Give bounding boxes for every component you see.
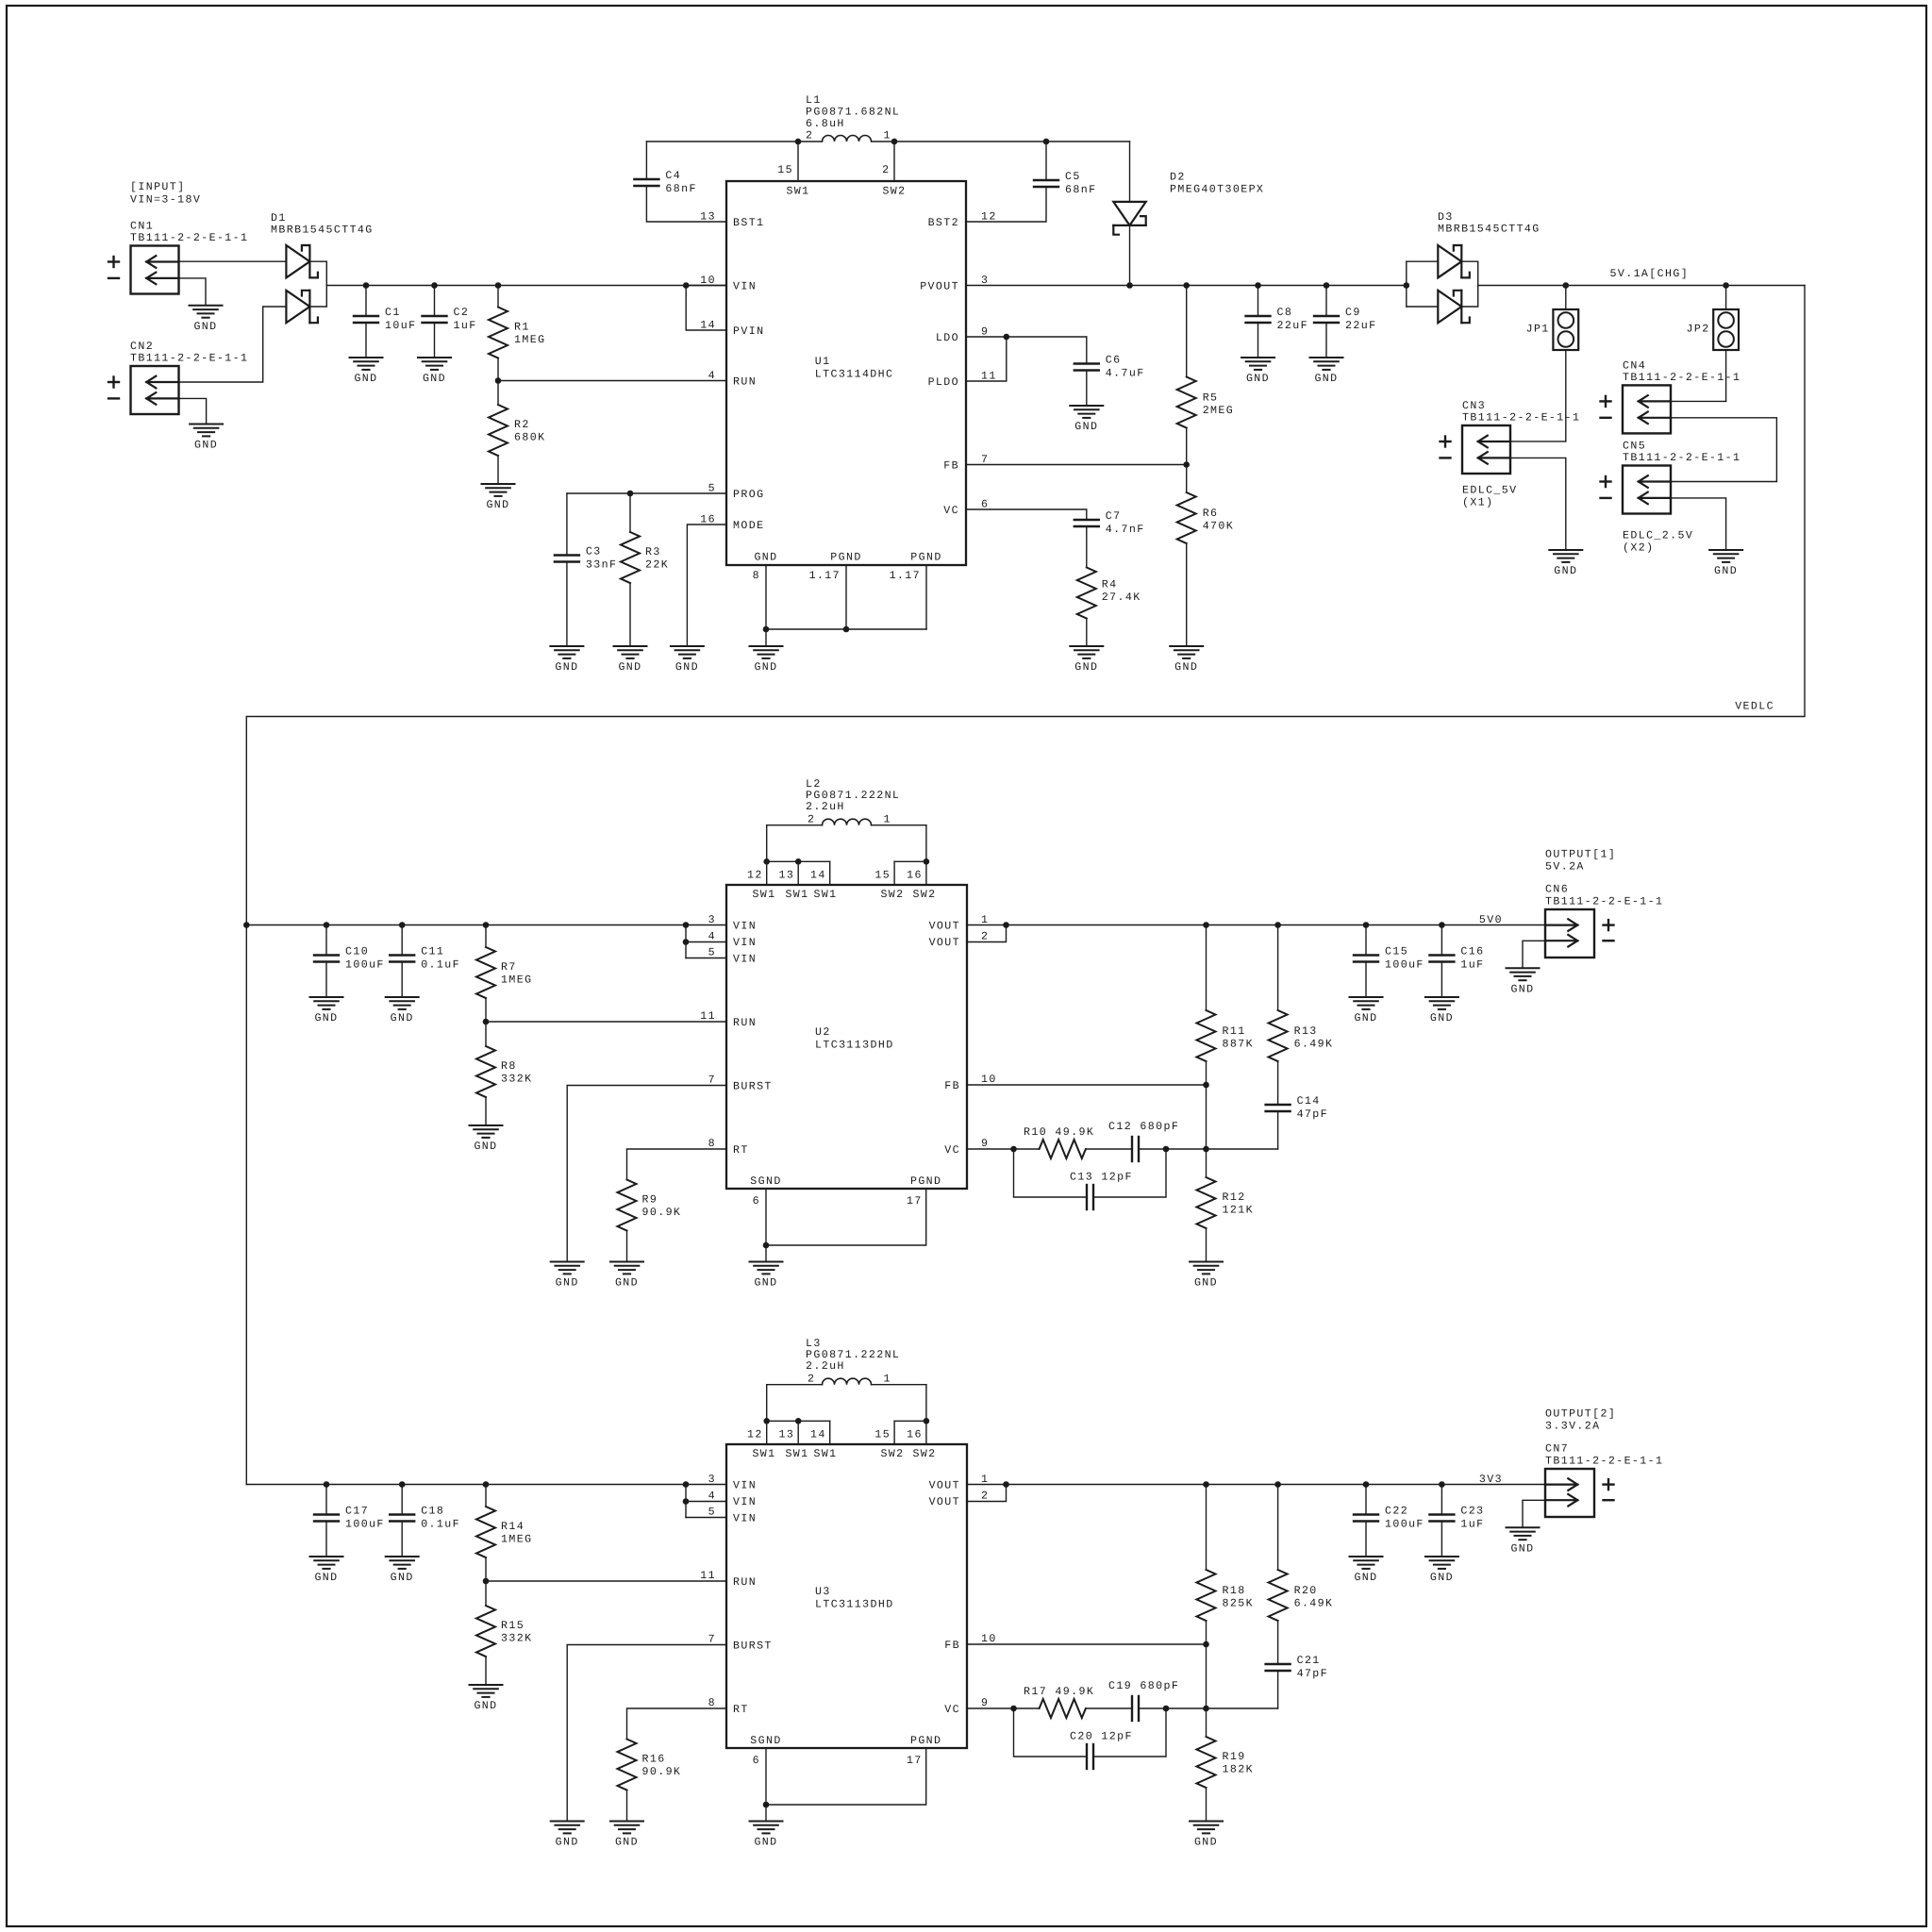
capacitor C18: [390, 1515, 414, 1522]
wire FB to VC U2: [1206, 1085, 1207, 1149]
wire R8 bottom lead: [485, 1097, 487, 1125]
wire JP1 to CN3: [1565, 350, 1567, 441]
wire SW pin x879 U3: [829, 1421, 831, 1444]
resistor R13: [1269, 1010, 1288, 1061]
wire VIN pins bracket U3: [685, 1485, 687, 1518]
node VIN4 junction U3: [683, 1498, 690, 1505]
svg-text:SGND: SGND: [750, 1735, 781, 1747]
jumper JP1: [1553, 309, 1578, 350]
ground C1: [350, 358, 383, 385]
connector CN5 label: [1623, 441, 1740, 465]
IC U1 top pin names: [786, 186, 906, 198]
wire C18 top lead: [401, 1485, 403, 1515]
svg-text:VIN=3-18V: VIN=3-18V: [130, 194, 201, 207]
diode D3 label: [1438, 211, 1541, 236]
svg-text:VOUT: VOUT: [929, 1480, 960, 1492]
svg-text:PGND: PGND: [910, 1735, 941, 1747]
capacitor C6 label: [1106, 355, 1145, 380]
inductor L2: [823, 819, 872, 824]
ground BURST U3: [551, 1822, 584, 1849]
wire SGND pin U2: [765, 1189, 767, 1245]
ground C18: [386, 1557, 419, 1584]
ground R4: [1070, 646, 1103, 674]
wire VIN net: [326, 285, 726, 287]
wire SW1 bus U2: [767, 860, 830, 862]
capacitor C16 label: [1460, 946, 1484, 972]
wire PGND pin b: [925, 565, 927, 629]
resistor R1: [489, 308, 508, 358]
resistor R14 label: [501, 1521, 532, 1546]
node VOUT junctions U2: [1003, 922, 1009, 928]
svg-text:FB: FB: [943, 460, 959, 473]
wire VC net right U2: [1139, 1148, 1278, 1150]
svg-text:1.17: 1.17: [890, 570, 921, 582]
wire VOUT pin2 stub U2: [967, 925, 1007, 942]
svg-text:GND: GND: [474, 1700, 497, 1712]
svg-text:2.2uH: 2.2uH: [806, 801, 845, 813]
capacitor C2: [423, 316, 447, 323]
wire FB net: [966, 464, 1187, 466]
wire GND pin 8: [765, 565, 767, 629]
svg-text:8: 8: [753, 570, 760, 582]
wire BURST to GND U2: [567, 1086, 726, 1262]
wire C9 bottom lead: [1325, 323, 1327, 358]
ground BURST U2: [551, 1262, 584, 1290]
svg-text:PGND: PGND: [910, 1175, 941, 1188]
capacitor C7 label: [1106, 510, 1145, 536]
wire VIN net U2: [246, 924, 726, 926]
svg-text:FB: FB: [944, 1640, 960, 1652]
resistor R5 label: [1203, 392, 1234, 418]
resistor R8 label: [501, 1060, 532, 1086]
wire C15 top lead: [1365, 925, 1367, 956]
wire R2 bottom lead: [497, 456, 499, 484]
connector CN2 label: [130, 341, 248, 365]
svg-text:R4: R4: [1102, 579, 1118, 591]
wire C11 bottom lead: [401, 962, 403, 998]
svg-text:GND: GND: [556, 1837, 579, 1849]
wire R13 to C14: [1277, 1061, 1279, 1105]
wire R18 bottom lead: [1206, 1621, 1207, 1644]
wire SW2 bus U3: [894, 1420, 926, 1422]
svg-text:15: 15: [874, 1429, 891, 1441]
wire CN3+ to JP1: [1510, 441, 1566, 442]
wire VOUT net U2: [967, 924, 1545, 926]
svg-text:100uF: 100uF: [345, 1519, 385, 1531]
node VIN junctions U3: [324, 1481, 330, 1488]
capacitor C11 label: [421, 946, 460, 972]
jumper JP2 label: [1687, 323, 1710, 335]
wire L1 right: [873, 141, 1130, 142]
wire VOUT net U3: [967, 1484, 1545, 1486]
wire SGND pin U3: [765, 1748, 767, 1805]
svg-text:GND: GND: [314, 1572, 338, 1584]
ground CN7: [1507, 1527, 1540, 1555]
svg-text:2: 2: [981, 1491, 989, 1503]
resistor R17 label: [1024, 1686, 1094, 1698]
capacitor C1: [354, 316, 378, 323]
svg-text:6.8uH: 6.8uH: [806, 118, 845, 130]
svg-text:MBRB1545CTT4G: MBRB1545CTT4G: [1438, 224, 1541, 236]
wire VC to C7: [966, 509, 1087, 520]
IC U2 bottom pin names: [750, 1175, 941, 1188]
svg-text:13: 13: [778, 870, 794, 882]
resistor R11 label: [1223, 1025, 1254, 1051]
svg-text:12: 12: [747, 1429, 763, 1441]
wire SW pin x812 U3: [766, 1421, 768, 1444]
capacitor C9: [1314, 316, 1339, 323]
svg-text:14: 14: [810, 1429, 826, 1441]
connector CN4 label: [1623, 359, 1740, 384]
wire JP1 top lead: [1565, 286, 1567, 310]
capacitor C19: [1132, 1696, 1139, 1721]
IC U3 top pin names: [752, 1448, 936, 1460]
svg-text:14: 14: [810, 870, 826, 882]
svg-text:VC: VC: [944, 1144, 960, 1157]
svg-text:TB111-2-2-E-1-1: TB111-2-2-E-1-1: [1623, 372, 1740, 384]
svg-text:90.9K: 90.9K: [642, 1207, 682, 1219]
ground R19: [1190, 1822, 1223, 1849]
svg-text:C3: C3: [586, 546, 602, 558]
node VIN junctions: [363, 282, 370, 289]
net label EDLC_2.5V: [1623, 529, 1693, 554]
svg-text:C22: C22: [1385, 1506, 1408, 1518]
wire C1 bottom lead: [365, 323, 367, 358]
ground U2: [750, 1262, 783, 1290]
wire C23 top lead: [1441, 1485, 1442, 1515]
wire to ground U2: [765, 1245, 767, 1262]
resistor R6: [1177, 492, 1196, 543]
svg-text:3V3: 3V3: [1479, 1474, 1503, 1486]
svg-text:SW1: SW1: [752, 889, 775, 901]
svg-text:4.7nF: 4.7nF: [1106, 524, 1145, 536]
wire D3 anode bar: [1406, 261, 1407, 307]
svg-text:VIN: VIN: [733, 1480, 757, 1492]
capacitor C5 label: [1065, 171, 1096, 196]
svg-text:5V0: 5V0: [1479, 914, 1503, 926]
resistor R4 label: [1102, 579, 1141, 605]
wire SW pin x981 U3: [925, 1421, 927, 1444]
wire C5 top lead: [1045, 142, 1047, 180]
wire R20 to C21: [1277, 1621, 1279, 1664]
diode D1 lower: [286, 291, 318, 323]
resistor R11: [1197, 1010, 1216, 1061]
svg-text:BURST: BURST: [733, 1641, 773, 1653]
svg-text:TB111-2-2-E-1-1: TB111-2-2-E-1-1: [1623, 452, 1740, 464]
svg-text:SW2: SW2: [912, 889, 936, 901]
svg-text:10uF: 10uF: [385, 320, 416, 332]
svg-text:7: 7: [708, 1634, 716, 1646]
svg-text:5V.1A[CHG]: 5V.1A[CHG]: [1610, 268, 1690, 280]
svg-text:C14: C14: [1297, 1095, 1321, 1108]
ground MODE: [671, 646, 704, 674]
wire C2 bottom lead: [434, 323, 436, 358]
resistor R8: [476, 1046, 495, 1097]
capacitor C22 label: [1385, 1506, 1424, 1531]
svg-text:C4: C4: [665, 170, 681, 182]
svg-text:CN1: CN1: [130, 221, 154, 233]
svg-text:VC: VC: [944, 1704, 960, 1716]
wire C15 bottom lead: [1365, 962, 1367, 998]
connector CN3 body: [1441, 425, 1511, 474]
svg-text:GND: GND: [391, 1012, 414, 1024]
svg-text:SW1: SW1: [752, 1448, 775, 1460]
svg-text:C1: C1: [385, 307, 401, 319]
IC U2 top pin numbers: [747, 870, 923, 882]
svg-text:U2: U2: [815, 1026, 831, 1039]
IC U3 LTC3113DHD: [726, 1444, 967, 1748]
svg-text:RUN: RUN: [733, 1017, 757, 1029]
diode D2: [1113, 202, 1145, 235]
wire C20 left leg: [1014, 1708, 1088, 1757]
capacitor C8: [1246, 316, 1271, 323]
wire R11 bottom lead: [1206, 1061, 1207, 1085]
svg-text:SW1: SW1: [785, 889, 808, 901]
resistor R1 label: [514, 322, 545, 347]
wire BURST to GND U3: [567, 1645, 726, 1822]
IC U1 right pin numbers: [981, 211, 997, 511]
svg-text:10: 10: [981, 1633, 997, 1645]
node LDO junction: [1004, 334, 1010, 341]
svg-text:FB: FB: [944, 1080, 960, 1092]
resistor R18: [1197, 1570, 1216, 1621]
capacitor C13: [1087, 1185, 1093, 1209]
svg-text:9: 9: [981, 1138, 989, 1150]
capacitor C23: [1429, 1515, 1454, 1522]
IC U2 top pin names: [752, 889, 936, 901]
connector CN2 body: [108, 366, 179, 414]
svg-text:GND: GND: [1194, 1837, 1218, 1849]
ground CN3: [1549, 550, 1582, 577]
svg-text:U1: U1: [815, 356, 831, 368]
svg-text:CN4: CN4: [1623, 359, 1646, 372]
wire VC stub U3: [967, 1707, 1014, 1709]
svg-text:VIN: VIN: [733, 281, 757, 293]
connector CN1 body: [108, 246, 179, 294]
svg-text:680K: 680K: [514, 432, 545, 444]
svg-text:4: 4: [708, 370, 716, 382]
wire PGND pin U2: [766, 1189, 926, 1245]
capacitor C3 label: [586, 546, 617, 572]
wire R11 top lead: [1206, 925, 1207, 1011]
svg-text:C18: C18: [421, 1506, 444, 1518]
svg-text:LTC3114DHC: LTC3114DHC: [815, 369, 894, 381]
svg-text:VOUT: VOUT: [929, 1496, 960, 1508]
connector CN6 body: [1545, 909, 1614, 958]
capacitor C15: [1354, 956, 1378, 962]
resistor R19 label: [1223, 1751, 1254, 1776]
node PVOUT junctions: [1126, 282, 1133, 289]
resistor R9 label: [642, 1194, 682, 1220]
wire C10 bottom lead: [325, 962, 327, 998]
connector CN7 label: [1545, 1443, 1663, 1468]
svg-text:D3: D3: [1438, 211, 1454, 224]
net label EDLC_5V: [1462, 484, 1518, 508]
svg-text:5: 5: [708, 1507, 716, 1519]
jumper JP2: [1713, 309, 1739, 350]
wire C18 bottom lead: [401, 1522, 403, 1557]
svg-text:R6: R6: [1203, 508, 1219, 520]
svg-text:VIN: VIN: [733, 937, 757, 949]
wire C5 to BST2: [966, 187, 1046, 222]
resistor R14: [476, 1507, 495, 1557]
resistor R17: [1040, 1699, 1086, 1718]
capacitor C21 label: [1297, 1655, 1328, 1680]
wire SW2 bus U2: [894, 860, 926, 862]
capacitor C17 label: [345, 1506, 385, 1531]
svg-text:C8: C8: [1277, 307, 1293, 319]
wire 5V CHG net: [1478, 285, 1805, 287]
svg-text:R8: R8: [501, 1060, 517, 1073]
svg-text:47pF: 47pF: [1297, 1668, 1328, 1680]
svg-text:R10 49.9K: R10 49.9K: [1024, 1126, 1094, 1139]
wire SW2 pin: [893, 142, 895, 181]
wire R17 to C19: [1086, 1707, 1132, 1709]
svg-text:1MEG: 1MEG: [501, 974, 532, 987]
IC U2 left pin names: [733, 921, 773, 1158]
IC U3 right pin names: [929, 1480, 960, 1717]
capacitor C10: [314, 956, 339, 962]
svg-text:VEDLC: VEDLC: [1735, 701, 1774, 713]
resistor R18 label: [1223, 1585, 1254, 1610]
svg-text:825K: 825K: [1223, 1598, 1254, 1610]
svg-text:68nF: 68nF: [665, 183, 696, 195]
svg-text:VIN: VIN: [733, 1513, 757, 1525]
svg-text:R11: R11: [1223, 1025, 1246, 1038]
svg-text:17: 17: [907, 1195, 923, 1207]
wire C6 top lead: [1086, 337, 1088, 364]
ground R16: [610, 1822, 643, 1849]
svg-text:SGND: SGND: [750, 1175, 781, 1188]
svg-text:GND: GND: [754, 552, 777, 564]
ground C17: [310, 1557, 343, 1584]
svg-text:GND: GND: [675, 661, 699, 674]
capacitor C12: [1132, 1137, 1139, 1161]
svg-text:C23: C23: [1460, 1506, 1484, 1518]
svg-text:11: 11: [700, 1570, 716, 1582]
svg-text:C21: C21: [1297, 1655, 1321, 1667]
capacitor C4 label: [665, 170, 696, 195]
svg-text:GND: GND: [354, 373, 377, 385]
wire R14 bottom lead: [485, 1557, 487, 1581]
resistor R2 label: [514, 419, 545, 444]
svg-text:R14: R14: [501, 1521, 525, 1533]
svg-text:C7: C7: [1106, 510, 1122, 523]
svg-text:PVOUT: PVOUT: [920, 281, 959, 293]
svg-text:PG0871.682NL: PG0871.682NL: [806, 107, 900, 119]
wire C17 top lead: [325, 1485, 327, 1515]
svg-text:LDO: LDO: [936, 332, 959, 344]
ground CN6: [1507, 968, 1540, 995]
wire D2 cathode lead: [1129, 225, 1131, 286]
svg-text:2: 2: [981, 931, 989, 943]
net label 5V.1A[CHG]: [1610, 268, 1690, 280]
svg-text:PMEG40T30EPX: PMEG40T30EPX: [1170, 184, 1264, 196]
svg-text:GND: GND: [1194, 1277, 1218, 1290]
svg-text:TB111-2-2-E-1-1: TB111-2-2-E-1-1: [1545, 896, 1663, 908]
ground C11: [386, 997, 419, 1024]
svg-text:SW1: SW1: [786, 186, 809, 198]
node RUN junction U3: [483, 1578, 490, 1585]
wire R9 bottom lead: [626, 1231, 628, 1262]
resistor R20 label: [1294, 1585, 1334, 1610]
wire FB to VC U3: [1206, 1644, 1207, 1708]
wire L3 right down: [925, 1385, 927, 1422]
svg-text:9: 9: [981, 1697, 989, 1709]
resistor R19: [1197, 1737, 1216, 1788]
node PROG junction: [627, 491, 634, 497]
wire RUN net U2: [486, 1021, 726, 1023]
ground C22: [1350, 1557, 1383, 1584]
wire SW pin x879 U2: [829, 861, 831, 885]
svg-text:PLDO: PLDO: [928, 376, 959, 389]
svg-text:16: 16: [907, 870, 923, 882]
connector CN4 body: [1601, 385, 1672, 433]
wire SW pin x981 U2: [925, 861, 927, 885]
svg-text:68nF: 68nF: [1065, 184, 1096, 196]
capacitor C23 label: [1460, 1506, 1484, 1531]
svg-text:13: 13: [778, 1429, 794, 1441]
svg-text:182K: 182K: [1223, 1764, 1254, 1776]
node VIN4 junction U2: [683, 939, 690, 945]
svg-text:GND: GND: [1354, 1012, 1377, 1024]
wire VIN pins bracket U2: [685, 925, 687, 958]
wire C3 bottom lead: [566, 562, 568, 647]
svg-text:17: 17: [907, 1755, 923, 1767]
inductor L3: [823, 1378, 872, 1384]
IC U2 left pin numbers: [700, 914, 716, 1150]
IC U2 right pin names: [929, 921, 960, 1158]
wire C9 top lead: [1325, 286, 1327, 317]
svg-text:SW2: SW2: [880, 889, 904, 901]
capacitor C18 label: [421, 1506, 460, 1531]
wire SW pin x948 U3: [893, 1421, 895, 1444]
svg-text:GND: GND: [754, 661, 777, 674]
wire C4 to BST1: [646, 186, 726, 222]
wire RUN net U3: [486, 1580, 726, 1582]
svg-text:0.1uF: 0.1uF: [421, 959, 460, 972]
svg-text:VOUT: VOUT: [929, 937, 960, 949]
inductor L3 label: [806, 1338, 900, 1373]
svg-text:C19 680pF: C19 680pF: [1108, 1680, 1179, 1692]
svg-text:4: 4: [708, 931, 716, 943]
ground R2: [482, 484, 515, 511]
svg-text:R20: R20: [1294, 1585, 1318, 1597]
svg-text:GND: GND: [474, 1141, 497, 1153]
wire VIN pin5 U3: [686, 1517, 726, 1519]
node VIN junctions U2: [243, 922, 250, 928]
wire R20 top lead: [1277, 1485, 1279, 1571]
IC U3 left pin numbers: [700, 1474, 716, 1709]
wire R12 top lead: [1206, 1149, 1207, 1177]
wire CN1+ to D1: [179, 260, 287, 262]
svg-text:GND: GND: [193, 321, 217, 333]
svg-text:12: 12: [747, 870, 763, 882]
wire D1 cathode join: [309, 261, 326, 307]
svg-text:GND: GND: [1074, 421, 1098, 433]
ground CN5: [1709, 550, 1742, 577]
svg-text:1: 1: [884, 130, 891, 142]
svg-text:6.49K: 6.49K: [1294, 1598, 1334, 1610]
svg-text:GND: GND: [1246, 373, 1270, 385]
net label VEDLC: [1735, 701, 1774, 713]
svg-text:GND: GND: [1430, 1572, 1454, 1584]
wire L3 right: [873, 1384, 926, 1386]
svg-text:332K: 332K: [501, 1633, 532, 1645]
wire SW1 pin: [797, 142, 799, 181]
IC U3 top pin numbers: [747, 1429, 923, 1441]
IC U2 name: [815, 1026, 894, 1052]
